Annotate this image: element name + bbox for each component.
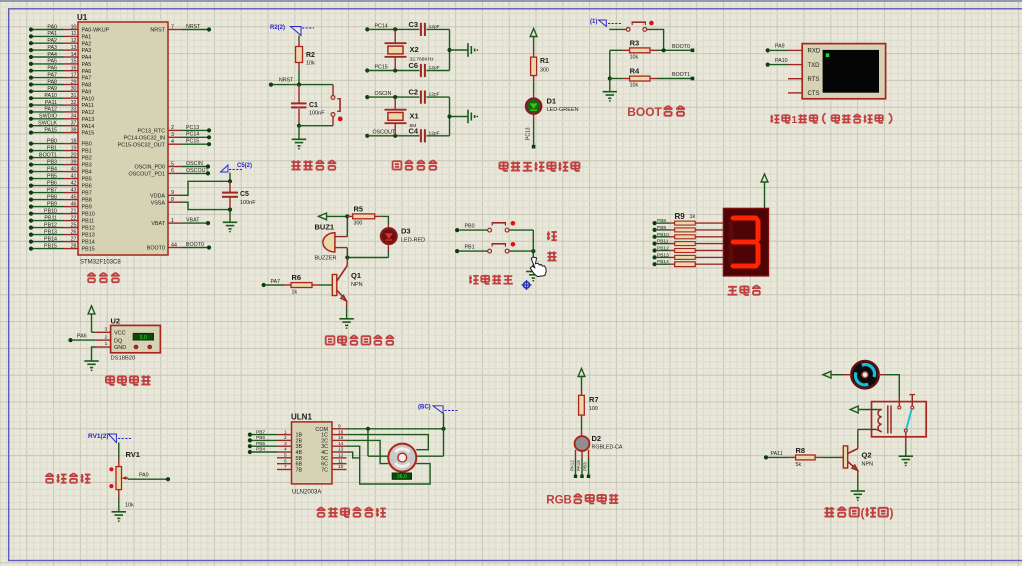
svg-text:BOOT1: BOOT1 — [39, 152, 57, 158]
svg-text:R9: R9 — [675, 212, 686, 221]
svg-text:5: 5 — [284, 453, 287, 459]
svg-text:PB0: PB0 — [465, 223, 475, 229]
svg-text:12: 12 — [338, 453, 344, 459]
svg-text:PA1: PA1 — [47, 31, 57, 37]
svg-text:ULN2003A: ULN2003A — [292, 490, 321, 496]
svg-text:15: 15 — [338, 435, 344, 441]
svg-text:11: 11 — [71, 31, 77, 37]
svg-text:D1: D1 — [547, 97, 557, 106]
svg-text:16: 16 — [338, 429, 344, 435]
svg-text:(BC): (BC) — [418, 405, 431, 411]
svg-text:BOOT0: BOOT0 — [672, 44, 690, 50]
svg-text:37: 37 — [71, 121, 77, 127]
svg-text:R6: R6 — [292, 273, 302, 282]
svg-text:LED-RED: LED-RED — [401, 237, 425, 243]
svg-text:BOOT0: BOOT0 — [186, 242, 204, 248]
svg-text:12pF: 12pF — [429, 65, 440, 71]
svg-text:PB10: PB10 — [44, 208, 57, 214]
svg-text:PB1: PB1 — [465, 244, 475, 250]
svg-text:Q1: Q1 — [351, 271, 361, 280]
svg-text:PB12: PB12 — [657, 246, 669, 252]
svg-text:(1): (1) — [590, 19, 597, 25]
svg-text:VCC: VCC — [114, 331, 126, 337]
svg-text:7: 7 — [171, 24, 174, 30]
svg-text:3: 3 — [171, 132, 174, 138]
svg-text:PB5: PB5 — [47, 173, 57, 179]
svg-text:300: 300 — [354, 221, 363, 227]
svg-text:U2: U2 — [111, 317, 121, 326]
svg-text:PA13: PA13 — [82, 117, 95, 123]
svg-text:LED-GREEN: LED-GREEN — [547, 107, 579, 113]
svg-text:PB8: PB8 — [82, 198, 92, 204]
svg-text:PA12: PA12 — [82, 110, 95, 116]
svg-text:PC15-OSC32_OUT: PC15-OSC32_OUT — [118, 142, 166, 148]
svg-text:BOOT1: BOOT1 — [672, 72, 690, 78]
svg-text:5: 5 — [171, 161, 174, 167]
svg-text:100: 100 — [589, 406, 598, 412]
svg-text:PB10: PB10 — [657, 232, 669, 238]
svg-text:5.0: 5.0 — [140, 335, 147, 341]
svg-text:NPN: NPN — [351, 282, 363, 288]
svg-text:PA3: PA3 — [47, 45, 57, 51]
svg-text:PB15: PB15 — [82, 247, 95, 253]
svg-text:R5: R5 — [354, 205, 364, 214]
svg-text:PA2: PA2 — [82, 41, 92, 47]
svg-text:PA8: PA8 — [82, 83, 92, 89]
svg-text:OSCOUT: OSCOUT — [186, 168, 209, 174]
svg-text:2: 2 — [171, 125, 174, 131]
svg-text:PC13: PC13 — [186, 125, 199, 131]
svg-text:PA7: PA7 — [82, 76, 92, 82]
svg-text:1k: 1k — [690, 214, 696, 220]
svg-text:D2: D2 — [592, 434, 602, 443]
svg-text:14: 14 — [338, 441, 344, 447]
svg-text:18: 18 — [71, 138, 77, 144]
svg-text:PB6: PB6 — [47, 180, 57, 186]
svg-text:PA0: PA0 — [139, 473, 149, 479]
svg-text:1: 1 — [791, 114, 797, 126]
svg-text:PB12: PB12 — [44, 222, 57, 228]
svg-text:C1: C1 — [309, 102, 318, 109]
svg-text:PB13: PB13 — [657, 252, 669, 258]
svg-text:29: 29 — [71, 79, 77, 85]
svg-text:U1: U1 — [77, 13, 88, 22]
svg-text:7C: 7C — [321, 468, 328, 474]
svg-text:12pF: 12pF — [429, 92, 440, 98]
svg-text:PA6: PA6 — [82, 69, 92, 75]
svg-text:PB4: PB4 — [256, 447, 265, 453]
svg-text:TXD: TXD — [808, 63, 821, 69]
svg-text:21: 21 — [71, 208, 77, 214]
svg-text:PA8: PA8 — [47, 79, 57, 85]
svg-text:PB15: PB15 — [44, 243, 57, 249]
svg-text:PB7: PB7 — [82, 191, 92, 197]
svg-text:R7: R7 — [589, 395, 599, 404]
svg-text:10k: 10k — [306, 61, 315, 67]
svg-text:PB11: PB11 — [657, 239, 669, 245]
svg-text:100nF: 100nF — [240, 200, 256, 206]
svg-text:3: 3 — [105, 327, 108, 333]
svg-text:PB8: PB8 — [657, 218, 666, 224]
svg-text:43: 43 — [71, 187, 77, 193]
svg-text:PA9: PA9 — [82, 89, 92, 95]
svg-text:D3: D3 — [401, 227, 411, 236]
svg-text:SWCLK: SWCLK — [38, 121, 57, 127]
svg-text:PB3: PB3 — [47, 159, 57, 165]
svg-text:PB1: PB1 — [82, 149, 92, 155]
svg-text:PA15: PA15 — [44, 127, 57, 133]
svg-text:PC14-OSC32_IN: PC14-OSC32_IN — [124, 135, 165, 141]
svg-text:22: 22 — [71, 215, 77, 221]
svg-text:12pF: 12pF — [429, 130, 440, 136]
svg-text:PA9: PA9 — [47, 86, 57, 92]
svg-text:STM32F103C8: STM32F103C8 — [80, 260, 121, 266]
svg-text:PA0: PA0 — [47, 24, 57, 30]
svg-text:GND: GND — [114, 345, 126, 351]
svg-text:PA2: PA2 — [47, 38, 57, 44]
svg-text:PA7: PA7 — [271, 279, 281, 285]
svg-text:36.0: 36.0 — [397, 474, 407, 480]
svg-text:RV1: RV1 — [126, 450, 140, 459]
svg-text:PA6: PA6 — [77, 334, 87, 340]
svg-text:2: 2 — [284, 435, 287, 441]
svg-text:PB4: PB4 — [47, 166, 57, 172]
svg-text:13: 13 — [71, 45, 77, 51]
svg-text:15: 15 — [71, 59, 77, 65]
svg-text:44: 44 — [171, 242, 177, 248]
svg-text:PA15: PA15 — [576, 460, 581, 471]
svg-text:NRST: NRST — [279, 78, 294, 84]
svg-text:NRST: NRST — [186, 24, 201, 30]
svg-text:X1: X1 — [410, 112, 419, 121]
svg-text:40: 40 — [71, 166, 77, 172]
svg-text:OSCIN: OSCIN — [375, 91, 392, 97]
svg-text:C5: C5 — [240, 191, 249, 198]
svg-text:1: 1 — [284, 429, 287, 435]
svg-text:12pF: 12pF — [429, 24, 440, 30]
svg-text:PA4: PA4 — [47, 52, 57, 58]
svg-text:PC14: PC14 — [186, 132, 199, 138]
svg-text:RTS: RTS — [808, 77, 820, 83]
svg-text:10k: 10k — [630, 83, 639, 89]
svg-text:BOOT0: BOOT0 — [147, 246, 165, 252]
svg-text:PC15: PC15 — [186, 139, 199, 145]
svg-text:PC13: PC13 — [526, 127, 532, 140]
svg-text:C4: C4 — [409, 126, 419, 135]
svg-text:PB6: PB6 — [82, 184, 92, 190]
svg-text:CTS: CTS — [808, 91, 820, 97]
svg-text:PB9: PB9 — [82, 205, 92, 211]
svg-text:NRST: NRST — [150, 28, 165, 34]
svg-text:C5(2): C5(2) — [237, 163, 252, 169]
svg-text:PA11: PA11 — [82, 103, 94, 109]
svg-text:41: 41 — [71, 173, 77, 179]
svg-text:4: 4 — [284, 447, 287, 453]
svg-text:3: 3 — [284, 441, 287, 447]
svg-text:300: 300 — [540, 68, 549, 74]
svg-text:PA11: PA11 — [771, 451, 783, 457]
svg-text:42: 42 — [71, 180, 77, 186]
svg-text:R3: R3 — [630, 39, 640, 48]
svg-text:VBAT: VBAT — [186, 218, 200, 224]
svg-text:31: 31 — [71, 93, 77, 99]
svg-text:6: 6 — [171, 168, 174, 174]
svg-text:PA14: PA14 — [82, 124, 95, 130]
svg-text:PA9: PA9 — [775, 44, 785, 50]
svg-text:RV1(2): RV1(2) — [88, 433, 108, 440]
svg-text:28: 28 — [71, 243, 77, 249]
svg-text:PA3: PA3 — [82, 48, 92, 54]
svg-text:R8: R8 — [796, 446, 806, 455]
svg-text:PB10: PB10 — [82, 212, 95, 218]
svg-text:PC14: PC14 — [375, 23, 388, 29]
svg-text:PB13: PB13 — [82, 233, 95, 239]
svg-text:PB7: PB7 — [256, 429, 265, 435]
svg-text:PB2: PB2 — [82, 156, 92, 162]
svg-text:1k: 1k — [292, 289, 298, 295]
svg-text:OSCOUT: OSCOUT — [373, 130, 396, 136]
svg-text:10: 10 — [338, 464, 344, 470]
svg-text:PA10: PA10 — [44, 93, 57, 99]
svg-text:PB4: PB4 — [82, 170, 92, 176]
svg-text:X2: X2 — [410, 45, 419, 54]
svg-text:PA10: PA10 — [82, 96, 95, 102]
svg-text:PA6: PA6 — [47, 66, 57, 72]
svg-text:27: 27 — [71, 236, 77, 242]
svg-text:RGBLED-CA: RGBLED-CA — [592, 445, 623, 451]
svg-text:DS18B20: DS18B20 — [111, 356, 136, 362]
svg-text:16: 16 — [71, 66, 77, 72]
svg-text:PB13: PB13 — [44, 229, 57, 235]
svg-text:10k: 10k — [630, 55, 639, 61]
svg-text:13: 13 — [338, 447, 344, 453]
svg-text:34: 34 — [71, 114, 77, 120]
svg-text:PA0-WKUP: PA0-WKUP — [82, 28, 110, 34]
svg-text:RGB: RGB — [546, 495, 572, 507]
svg-text:R4: R4 — [630, 67, 640, 76]
svg-text:12: 12 — [71, 38, 77, 44]
svg-text:PB9: PB9 — [657, 225, 666, 231]
svg-text:33: 33 — [71, 107, 77, 113]
svg-text:OSCIN: OSCIN — [186, 161, 203, 167]
svg-text:PA12: PA12 — [44, 107, 57, 113]
svg-text:PB1: PB1 — [47, 145, 57, 151]
svg-text:8: 8 — [171, 197, 174, 203]
svg-text:VBAT: VBAT — [151, 221, 165, 227]
svg-text:BOOT: BOOT — [627, 105, 662, 119]
svg-text:4: 4 — [171, 139, 174, 145]
svg-text:20: 20 — [71, 152, 77, 158]
svg-text:PA5: PA5 — [47, 59, 57, 65]
svg-text:10k: 10k — [125, 503, 134, 509]
svg-text:PB8: PB8 — [47, 194, 57, 200]
svg-text:C6: C6 — [409, 61, 419, 70]
svg-text:R2(2): R2(2) — [270, 25, 285, 31]
svg-text:R1: R1 — [540, 58, 549, 65]
svg-text:NPN: NPN — [862, 462, 874, 468]
svg-text:OSCIN_PD0: OSCIN_PD0 — [134, 165, 165, 171]
svg-text:PB0: PB0 — [47, 138, 57, 144]
svg-text:1: 1 — [105, 341, 108, 347]
svg-text:PA10: PA10 — [775, 58, 788, 64]
svg-text:5k: 5k — [796, 462, 802, 468]
svg-text:39: 39 — [71, 159, 77, 165]
svg-text:PB12: PB12 — [82, 226, 95, 232]
svg-text:C2: C2 — [409, 88, 419, 97]
svg-text:1: 1 — [171, 218, 174, 224]
svg-text:SWDIO: SWDIO — [39, 114, 57, 120]
svg-text:): ) — [890, 506, 894, 520]
svg-text:PB3: PB3 — [582, 462, 587, 471]
svg-text:38: 38 — [71, 127, 77, 133]
svg-text:PA15: PA15 — [82, 131, 95, 137]
svg-text:PB11: PB11 — [44, 215, 57, 221]
svg-text:PA5: PA5 — [82, 62, 92, 68]
svg-text:14: 14 — [71, 52, 77, 58]
svg-text:PB14: PB14 — [82, 240, 95, 246]
svg-text:100nF: 100nF — [309, 111, 325, 117]
svg-text:ULN1: ULN1 — [291, 413, 312, 422]
svg-text:7B: 7B — [296, 468, 303, 474]
svg-text:46: 46 — [71, 201, 77, 207]
svg-text:PB14: PB14 — [44, 236, 57, 242]
svg-text:PA12: PA12 — [569, 460, 574, 471]
svg-text:(: ( — [861, 506, 865, 520]
svg-text:45: 45 — [71, 194, 77, 200]
svg-text:Q2: Q2 — [862, 451, 872, 460]
svg-text:BUZ1: BUZ1 — [315, 223, 335, 232]
svg-text:PB5: PB5 — [82, 177, 92, 183]
svg-text:R2: R2 — [306, 52, 315, 59]
svg-text:10: 10 — [71, 24, 77, 30]
svg-text:RXD: RXD — [808, 49, 821, 55]
svg-text:BUZZER: BUZZER — [315, 256, 337, 262]
svg-text:VDDA: VDDA — [150, 193, 165, 199]
svg-text:C3: C3 — [409, 20, 419, 29]
svg-text:32: 32 — [71, 100, 77, 106]
svg-text:PB14: PB14 — [657, 259, 669, 265]
svg-text:25: 25 — [71, 222, 77, 228]
svg-text:9: 9 — [338, 424, 341, 430]
svg-text:7: 7 — [284, 464, 287, 470]
svg-text:26: 26 — [71, 229, 77, 235]
svg-text:PA4: PA4 — [82, 55, 92, 61]
svg-text:19: 19 — [71, 145, 77, 151]
svg-text:PB5: PB5 — [256, 441, 265, 447]
svg-text:PB9: PB9 — [47, 201, 57, 207]
svg-text:PA1: PA1 — [82, 35, 92, 41]
svg-text:PA11: PA11 — [45, 100, 57, 106]
svg-text:VSSA: VSSA — [151, 200, 166, 206]
svg-text:11: 11 — [338, 458, 343, 464]
svg-text:PB11: PB11 — [82, 219, 95, 225]
svg-text:PB6: PB6 — [256, 435, 265, 441]
svg-text:OSCOUT_PD1: OSCOUT_PD1 — [128, 172, 165, 178]
svg-text:2: 2 — [105, 334, 108, 340]
svg-text:PA7: PA7 — [47, 72, 57, 78]
svg-text:PB7: PB7 — [47, 187, 57, 193]
svg-text:PC15: PC15 — [375, 64, 388, 70]
svg-text:9: 9 — [171, 190, 174, 196]
svg-text:DQ: DQ — [114, 338, 123, 344]
svg-text:17: 17 — [71, 72, 77, 78]
svg-text:PB0: PB0 — [82, 142, 92, 148]
svg-text:6: 6 — [284, 458, 287, 464]
svg-text:PC13_RTC: PC13_RTC — [138, 129, 166, 135]
svg-text:PB3: PB3 — [82, 163, 92, 169]
svg-text:30: 30 — [71, 86, 77, 92]
